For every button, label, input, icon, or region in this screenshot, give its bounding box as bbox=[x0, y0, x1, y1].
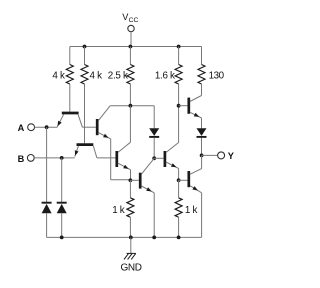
transistor Q4 base bar bbox=[115, 151, 118, 167]
wire Q5 emitter drop bbox=[178, 168, 180, 180]
wire rail to R1 bbox=[69, 47, 71, 65]
diode D4 bbox=[197, 128, 207, 136]
terminal B bbox=[27, 155, 34, 162]
wire R7 to ground rail bbox=[178, 217, 180, 237]
terminal A bbox=[28, 124, 35, 131]
transistor Q8 base bar bbox=[139, 173, 142, 189]
wire node1 to D3 bbox=[153, 106, 155, 129]
wire R6 to ground rail bbox=[129, 217, 131, 237]
svg-text:2.5 k: 2.5 k bbox=[108, 71, 128, 82]
resistor R4 1.6k bbox=[175, 65, 182, 84]
svg-text:4 k: 4 k bbox=[52, 71, 65, 82]
wire Q8 emitter drop bbox=[153, 193, 155, 238]
node rail-R4 bbox=[177, 45, 181, 49]
wire Q5 base bbox=[154, 157, 163, 159]
node rail-VCC bbox=[129, 45, 133, 49]
transistor Q3 base bar bbox=[96, 119, 99, 135]
arrow Q1 emitter bbox=[58, 121, 62, 127]
node gnd Q8 bbox=[152, 236, 156, 240]
wire Q7 emitter drop bbox=[201, 193, 203, 238]
wire Q7 base bbox=[179, 179, 188, 181]
wire Q2 collector bbox=[93, 146, 97, 158]
transistor Q5 base bar bbox=[164, 151, 167, 167]
wire node3 to R6 bbox=[129, 180, 131, 198]
diode D1 input clamp A bbox=[42, 202, 52, 204]
transistor Q7 base bar bbox=[187, 171, 190, 187]
wire Q7 emitter diag bbox=[190, 186, 202, 193]
node 4 bbox=[152, 156, 156, 160]
svg-text:GND: GND bbox=[120, 263, 141, 274]
node 2 1.6k junction bbox=[177, 104, 181, 108]
wire Q8 base bbox=[130, 179, 139, 181]
wire Q6 emitter drop bbox=[201, 118, 203, 128]
resistor R1 4k bbox=[66, 65, 73, 84]
wire Q4 collector diag bbox=[118, 142, 130, 152]
arrow Q7 emitter bbox=[192, 186, 198, 190]
terminal Y bbox=[218, 152, 225, 159]
wire R5 to Q6 collector bbox=[201, 84, 203, 96]
wire Q5 emitter diag bbox=[166, 162, 179, 168]
diode D2 input clamp B bbox=[57, 202, 67, 204]
svg-text:B: B bbox=[18, 154, 25, 164]
wire R4 to node2 bbox=[178, 84, 180, 106]
node gnd R6 bbox=[129, 236, 133, 240]
arrow Q3 emitter bbox=[103, 134, 109, 138]
wire R2 to Q2 base bbox=[84, 84, 86, 143]
svg-text:130: 130 bbox=[209, 71, 225, 82]
node 3 emitters bbox=[129, 178, 133, 182]
wire Q5 collector up bbox=[178, 106, 180, 143]
wire Q4 collector up bbox=[129, 106, 131, 143]
transistor Q2 base bar bbox=[77, 143, 94, 146]
wire Q3 emitter drop bbox=[110, 139, 112, 180]
wire Q6 collector diag bbox=[190, 96, 202, 102]
wire B clamp drop bbox=[61, 158, 63, 203]
wire Q7 collector diag bbox=[190, 169, 202, 175]
diode D3 bbox=[149, 128, 159, 136]
wire A clamp drop bbox=[46, 127, 48, 203]
wire VCC stem bbox=[130, 32, 132, 47]
wire rail to R2 bbox=[84, 47, 86, 65]
VCC terminal bbox=[128, 25, 134, 31]
wire Q4 emitter drop bbox=[130, 170, 132, 181]
wire D3 to node4 bbox=[153, 138, 155, 158]
wire ground rail bbox=[47, 236, 202, 238]
wire Q1 collector bbox=[78, 114, 82, 127]
ground symbol bbox=[127, 252, 136, 254]
wire A bbox=[35, 126, 58, 128]
svg-text:A: A bbox=[18, 123, 25, 133]
wire D1 to ground rail bbox=[46, 213, 48, 237]
svg-text:1 k: 1 k bbox=[112, 205, 125, 216]
wire Q3 collector bbox=[98, 106, 110, 121]
node 5 Q7 base bbox=[177, 178, 181, 182]
wire D4 to output node bbox=[201, 138, 203, 156]
wire GND stub bbox=[130, 237, 132, 253]
wire Q2 collector to Q4 base bbox=[97, 157, 116, 159]
node A junction bbox=[45, 125, 49, 129]
svg-text:1.6 k: 1.6 k bbox=[155, 71, 175, 82]
wire Q7 collector up bbox=[201, 155, 203, 168]
wire Q1 collector to Q3 base bbox=[82, 126, 96, 128]
wire rail to R4 bbox=[178, 47, 180, 65]
wire Q3 emitter to node3 bbox=[111, 179, 131, 181]
svg-text:Y: Y bbox=[228, 151, 234, 161]
resistor R3 2.5k bbox=[127, 65, 134, 84]
node output bbox=[200, 154, 204, 158]
wire rail to R3 bbox=[129, 47, 131, 65]
wire Q2 emitter bbox=[75, 146, 79, 157]
node rail-R2 bbox=[83, 45, 87, 49]
arrow Q2 emitter bbox=[75, 150, 79, 156]
svg-text:1 k: 1 k bbox=[185, 205, 198, 216]
wire D2 to ground rail bbox=[61, 213, 63, 237]
svg-text:CC: CC bbox=[129, 17, 139, 24]
svg-text:4 k: 4 k bbox=[90, 71, 103, 82]
wire output bbox=[202, 154, 218, 156]
wire R1 to Q1 base bbox=[69, 84, 71, 112]
resistor R6 1k bbox=[127, 198, 134, 217]
wire VCC rail bbox=[70, 46, 202, 48]
wire Q4 emitter diag bbox=[118, 163, 131, 170]
wire node1 row bbox=[110, 105, 154, 107]
arrow Q6 emitter bbox=[194, 113, 200, 117]
arrow Q4 emitter bbox=[123, 165, 129, 169]
wire Q6 base bbox=[179, 105, 188, 107]
resistor R5 130 bbox=[198, 65, 205, 84]
wire Q8 emitter diag bbox=[141, 186, 154, 193]
wire R3 to node1 bbox=[129, 84, 131, 106]
wire Q1 emitter bbox=[57, 114, 64, 127]
wire B bbox=[34, 157, 74, 159]
wire Q8 collector bbox=[141, 158, 154, 174]
wire node5 to R7 bbox=[178, 180, 180, 198]
transistor Q6 base bar bbox=[187, 98, 190, 114]
node gnd R7 bbox=[177, 236, 181, 240]
node gnd D2 bbox=[60, 236, 64, 240]
arrow Q8 emitter bbox=[146, 187, 152, 191]
wire Q6 emitter diag bbox=[190, 112, 202, 118]
wire Q5 collector diag bbox=[166, 143, 179, 153]
node B junction bbox=[60, 156, 64, 160]
transistor Q1 base bar bbox=[62, 112, 79, 115]
wire Q3 emitter diag bbox=[98, 133, 110, 139]
node 2.5k junction bbox=[129, 104, 133, 108]
wire rail to R5 bbox=[201, 47, 203, 65]
arrow Q5 emitter bbox=[171, 163, 177, 167]
resistor R7 1k bbox=[175, 198, 182, 217]
resistor R2 4k bbox=[81, 65, 88, 84]
